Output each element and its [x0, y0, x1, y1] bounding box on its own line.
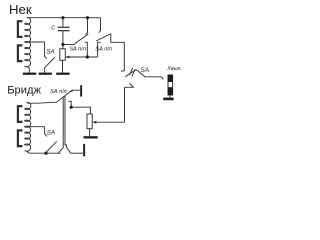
node junction dot top wire / capacitor: [61, 16, 64, 19]
svg-text:C: C: [51, 25, 55, 31]
switch SA p/p 2 blade: [96, 34, 111, 41]
ground (neck SA): [44, 68, 46, 73]
node junction dot bridge pot feed: [70, 106, 73, 109]
switch SA p/p 3 contact to terminal: [72, 90, 81, 92]
wire parallel bus right: [65, 96, 71, 153]
switch SA selector blade: [125, 69, 136, 76]
potentiometer R1 wiper arrow: [66, 56, 69, 58]
potentiometer R1 (neck volume) body: [62, 45, 64, 49]
capacitor C stem top: [62, 18, 64, 27]
wire neck wiper bus: [69, 56, 98, 58]
switch SA selector gang marks: [130, 68, 133, 75]
pickup core bracket (bridge coil 1): [18, 106, 23, 122]
switch SA p/p 1 upper contact: [86, 18, 88, 35]
switch SA p/p 3 lower contact to pot: [68, 101, 71, 107]
svg-text:SA п/п: SA п/п: [50, 89, 68, 95]
wire bridge bottom bus: [29, 152, 61, 154]
wire to bridge pot top: [71, 107, 90, 114]
pickup core bracket (neck coil 1): [18, 21, 23, 37]
wire neck coil tap: [27, 41, 45, 43]
svg-text:SA: SA: [47, 130, 55, 137]
svg-text:SA: SA: [140, 67, 149, 74]
ground (bridge pot): [84, 136, 98, 138]
wire parallel bus left: [58, 97, 63, 153]
selector lower contact: [124, 87, 126, 122]
svg-text:Нек: Нек: [9, 2, 32, 17]
selector upper contact hook: [121, 70, 124, 72]
wire selector to jack: [136, 70, 163, 80]
wire bridge wiper bus: [96, 121, 125, 123]
node junction dot cap bottom: [61, 43, 64, 46]
wire to switch SA p/p 1 pivot: [63, 44, 74, 46]
wire switch 2 output to selector: [111, 34, 125, 71]
pickup core bracket (neck coil 2): [18, 45, 23, 61]
switch SA p/p 2 lower contact: [98, 42, 101, 57]
switch SA (neck) blade: [45, 58, 55, 68]
node junction dot bridge bottom: [44, 152, 47, 155]
ground (neck pot): [56, 73, 69, 75]
potentiometer R2 stem: [89, 129, 91, 137]
node junction dot top wire 2: [86, 16, 89, 19]
potentiometer R1 stem to ground: [62, 60, 64, 72]
svg-text:SA п/п: SA п/п: [95, 46, 113, 52]
svg-text:Бридж: Бридж: [7, 85, 41, 97]
capacitor C stem bottom: [62, 31, 64, 44]
switch SA (neck) fixed contact: [45, 42, 47, 59]
wire bridge coil tap: [27, 126, 45, 128]
wire bottom right to terminal 2: [71, 152, 83, 154]
svg-text:SA п/п: SA п/п: [69, 47, 87, 53]
wire bridge coil top to SA p/p 3 pivot: [27, 90, 73, 104]
wire top bus: [27, 17, 101, 19]
potentiometer R2 wiper arrow: [92, 121, 96, 124]
pickup core bracket (bridge coil 2): [18, 130, 23, 146]
ground (neck pickup): [23, 73, 36, 75]
terminal bar 2: [83, 144, 85, 157]
switch SA p/p 1 lower contact: [85, 42, 88, 57]
node junction dot wiper: [86, 55, 89, 58]
switch SA (bridge) blade: [46, 141, 57, 152]
capacitor C plates: [58, 26, 70, 28]
switch SA p/p 2 upper contact: [99, 18, 101, 33]
inductor L1 neck pickup winding: [25, 17, 31, 68]
inductor L2 bridge pickup winding: [25, 102, 31, 153]
terminal bar 1: [80, 85, 82, 96]
svg-text:SA: SA: [46, 49, 54, 56]
svg-text:Хвых.: Хвых.: [166, 66, 182, 72]
potentiometer R2 (bridge volume) body: [87, 114, 92, 129]
switch SA p/p 1 blade: [74, 34, 89, 44]
connector X output jack: [168, 75, 173, 95]
switch SA (bridge) fixed contact: [45, 127, 47, 137]
wire neck coil bottom: [28, 68, 30, 72]
